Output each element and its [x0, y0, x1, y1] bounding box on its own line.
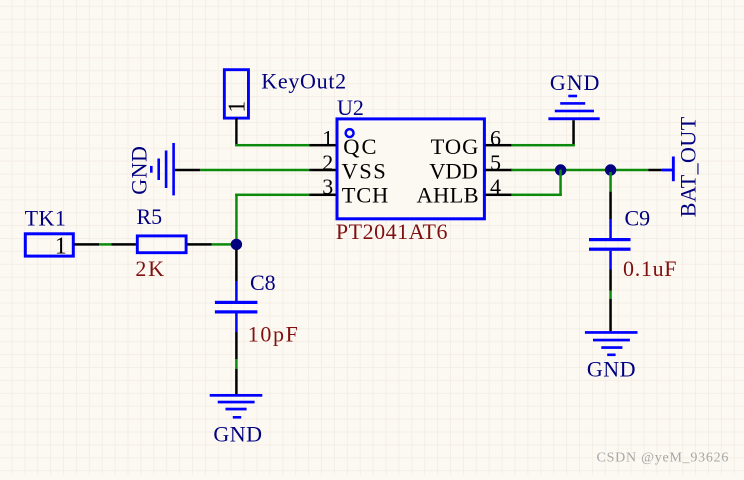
svg-text:10pF: 10pF — [248, 322, 300, 347]
port BAT_OUT — [648, 157, 675, 182]
pin 1 stub of U2 — [310, 144, 337, 147]
connector TK1 — [25, 233, 73, 259]
svg-text:TK1: TK1 — [25, 205, 67, 230]
pin 2 stub of U2 — [310, 169, 337, 172]
svg-text:VSS: VSS — [342, 159, 388, 184]
svg-text:VDD: VDD — [429, 159, 478, 184]
svg-text:KeyOut2: KeyOut2 — [261, 69, 347, 94]
svg-text:0.1uF: 0.1uF — [623, 256, 677, 281]
wire net TCH horizontal — [235, 194, 310, 197]
resistor R5 — [111, 236, 211, 253]
svg-text:U2: U2 — [337, 95, 364, 120]
pin of KeyOut2 — [235, 118, 237, 146]
svg-text:GND: GND — [587, 357, 636, 382]
svg-text:CSDN @yeM_93626: CSDN @yeM_93626 — [597, 450, 730, 465]
svg-text:1: 1 — [322, 126, 333, 151]
connector KeyOut2 — [224, 70, 250, 118]
wire net TCH to junction — [212, 243, 232, 246]
junction dot A — [555, 164, 566, 175]
ground GND (below C9) — [585, 331, 638, 356]
svg-text:PT2041AT6: PT2041AT6 — [336, 219, 448, 244]
pin 6 stub of U2 — [485, 144, 512, 147]
wire net TCH left — [99, 243, 111, 246]
pin 5 stub of U2 — [485, 169, 512, 172]
wire net AHLB horizontal — [511, 194, 562, 197]
wire net QC — [235, 144, 310, 147]
svg-text:GND: GND — [213, 422, 262, 447]
svg-text:3: 3 — [322, 174, 333, 199]
wire net VDD — [511, 169, 648, 172]
chip U2 body — [337, 119, 484, 219]
svg-text:TOG: TOG — [431, 134, 480, 159]
svg-text:TCH: TCH — [342, 183, 389, 208]
svg-text:2: 2 — [322, 150, 333, 175]
svg-text:C9: C9 — [625, 206, 651, 231]
svg-text:AHLB: AHLB — [417, 183, 479, 208]
pin 4 stub of U2 — [485, 194, 512, 197]
ground GND (top right, inverted) — [548, 95, 599, 146]
pin 3 stub of U2 — [310, 194, 337, 197]
svg-text:1: 1 — [225, 101, 251, 113]
ground GND (below C8) — [210, 394, 263, 419]
pin of TK1 — [75, 243, 100, 246]
wire net TCH vertical — [235, 194, 238, 245]
svg-text:C8: C8 — [250, 270, 276, 295]
ground GND (left, rotated) — [150, 143, 200, 195]
pin-1 indicator circle — [346, 129, 354, 137]
svg-text:QC: QC — [343, 134, 378, 159]
junction dot B — [605, 164, 616, 175]
capacitor C8 — [215, 249, 258, 395]
junction dot C — [231, 239, 242, 250]
wire net VSS — [200, 169, 309, 172]
wire net AHLB vertical — [559, 170, 562, 197]
svg-text:GND: GND — [550, 70, 600, 95]
svg-text:6: 6 — [490, 126, 501, 151]
svg-text:BAT_OUT: BAT_OUT — [676, 116, 701, 217]
wire net TOG — [511, 144, 575, 147]
svg-text:R5: R5 — [137, 204, 163, 229]
svg-text:2K: 2K — [135, 256, 165, 281]
capacitor C9 — [589, 172, 631, 331]
svg-text:1: 1 — [55, 233, 67, 259]
svg-text:GND: GND — [127, 146, 152, 195]
